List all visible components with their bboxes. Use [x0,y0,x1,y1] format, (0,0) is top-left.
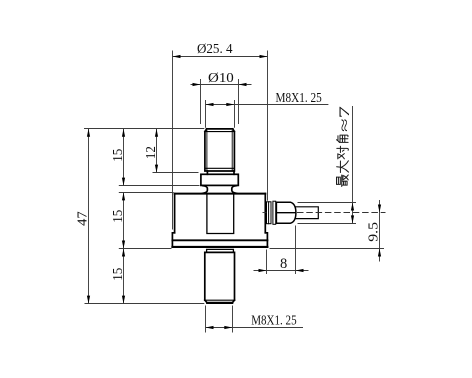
hex top extension (y=202.5) [298,202,357,204]
arrows 47 [87,129,90,137]
body inner column [207,194,234,234]
svg-text:15: 15 [111,149,126,162]
svg-text:M8X1. 25: M8X1. 25 [251,313,297,328]
connector centerline solid part [263,212,267,214]
extension line O10 left (x=200.5) [200,79,202,124]
svg-text:8: 8 [280,256,287,272]
9.5 dim line (x=379.5) [379,200,381,262]
extension line plate bottom left for 15/15 (y=248.5) [119,248,172,250]
arrows 15 top [122,129,125,137]
arrows 12 [155,129,158,137]
svg-text:15: 15 [111,268,126,281]
dim line O25.4 (y=56.5) [173,56,268,58]
dim line 12 [156,129,158,172]
hex bottom extension (y=223.5) [298,223,357,225]
hourglass neck [203,186,237,194]
connector washer 2 [273,201,276,224]
arrows 15 bottom [122,249,125,257]
M8 bottom dim line (y=327.5) [206,327,304,329]
8 dim line (y=270.5) [254,270,309,272]
connector pin [296,207,318,219]
dim line 47 [88,129,90,303]
bottom stud M8 [205,252,235,303]
main body [172,194,267,247]
dim line 15 top [123,129,125,185]
dim line O10 (y=84.5) [191,84,252,86]
svg-text:M8X1. 25: M8X1. 25 [276,90,323,105]
svg-text:15: 15 [111,210,126,223]
connector hex nut [276,202,296,223]
arrows max diagonal [351,203,354,211]
arrows M8 top [206,103,214,106]
arrows 9.5 (outside) [378,205,381,213]
top stud M8 body [205,129,235,171]
svg-text:Ø25. 4: Ø25. 4 [197,41,233,56]
svg-text:Ø10: Ø10 [208,70,234,85]
arrows 8 dim (outside) [259,269,267,272]
extension line top of part (y=128.5) [84,128,204,130]
svg-text:9.5: 9.5 [366,222,381,242]
M8 bottom extension lines [206,306,233,333]
neck under stud [207,171,234,174]
bottom plate [172,240,267,247]
svg-text:47: 47 [76,211,91,226]
arrows M8 bottom [206,326,214,329]
flange O10 [201,174,238,185]
extension line flange bottom for 15 (y=185.5) [119,185,200,187]
M8 top leader line (y=104.5) [206,104,329,106]
dim line 15 middle [123,193,125,249]
arrows O10 (outside) [193,83,201,86]
top stud thread minor lines [207,130,232,170]
extension line O25.4 left (x=172.5) [172,51,174,230]
char da (big) [337,161,349,173]
8 dim extension right (x=295.5) [295,226,297,275]
extension line bottom of part (y=303.5) [85,303,205,305]
char zui (most) [337,175,349,187]
M8 top extension ticks [206,100,235,128]
char dui (opposite) [337,146,349,159]
8 dim extension left (x=266.5) [266,250,268,275]
connector washer 1 [267,202,272,224]
extension line body top for 15 (y=192.5) [119,192,174,194]
extension line stud bottom for 12 (y=172.5) [153,172,199,174]
arrows 15 middle [122,192,125,200]
max diagonal dim line (x=352.5) [352,106,354,223]
9.5 bottom extension (y=248.5) [270,248,385,250]
label max diagonal approx 7 (Chinese drawn strokes + approx7) [337,135,349,186]
arrows O25.4 [173,55,181,58]
extension line O25.4 right (x=267.5) [267,51,269,201]
connector centerline dashed [297,212,386,214]
bottom collar [207,249,234,252]
svg-text:≈7: ≈7 [337,106,353,132]
extension line O10 right (x=238.5) [238,79,240,124]
char jiao (angle) [337,135,349,142]
dim line 15 bottom [123,249,125,304]
svg-text:12: 12 [144,146,159,159]
